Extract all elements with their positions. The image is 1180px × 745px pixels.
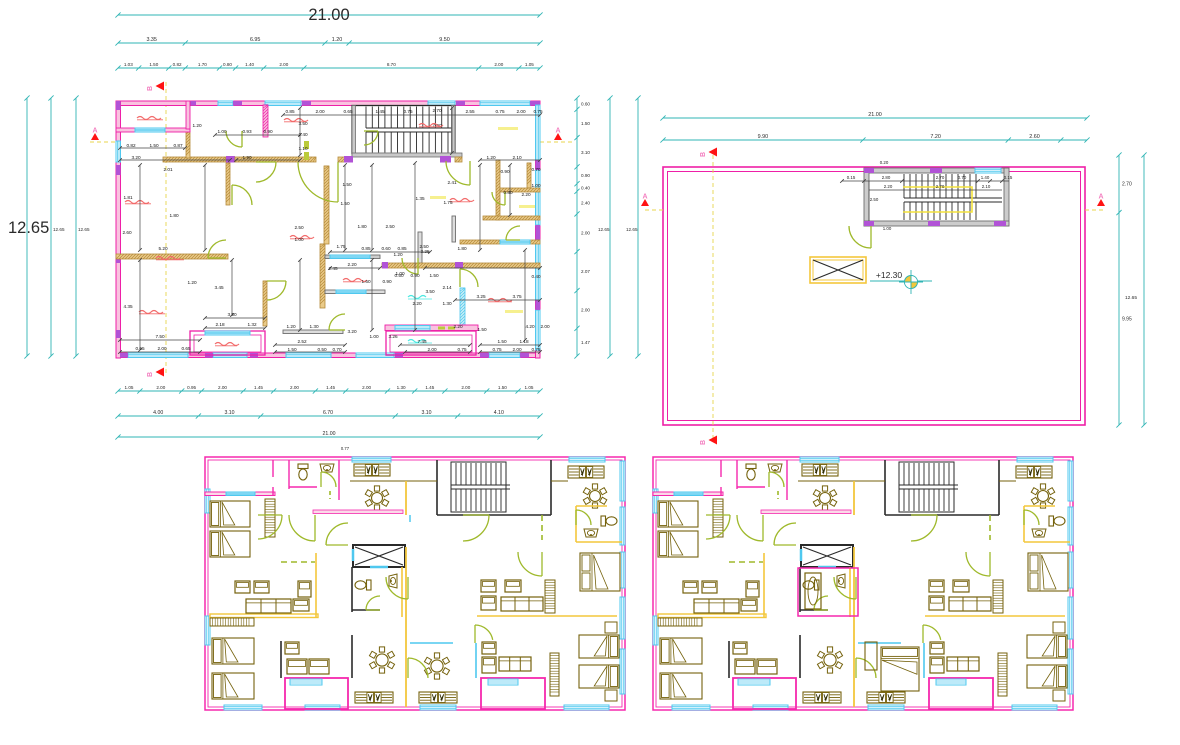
svg-text:1.80: 1.80	[357, 224, 367, 229]
dimension 21.00 top	[115, 12, 542, 17]
svg-text:1.50: 1.50	[149, 143, 159, 148]
svg-text:1.90: 1.90	[242, 155, 252, 160]
svg-text:1.75: 1.75	[443, 200, 453, 205]
armchair R1	[929, 580, 944, 592]
door arc hall low	[856, 658, 876, 678]
balcony1 outline	[733, 678, 796, 709]
balcony left outline	[190, 331, 265, 355]
door arc corridor 4	[463, 515, 489, 541]
wardrobe R	[998, 653, 1007, 696]
column right 3	[536, 300, 541, 310]
bedroom TL wall bottom	[653, 492, 723, 496]
door arc entry	[226, 131, 242, 147]
kitchen2 wall	[999, 480, 1016, 482]
svg-text:2.00: 2.00	[494, 62, 503, 67]
armchair R4	[930, 657, 944, 673]
svg-text:0.20: 0.20	[880, 160, 889, 165]
side table L	[741, 599, 757, 611]
armchair L1	[683, 581, 698, 593]
svg-text:3.26: 3.26	[388, 334, 398, 339]
roof section marker B top	[700, 148, 717, 158]
wall bedroom divider	[226, 163, 230, 205]
interior dimension lines horizontal	[118, 113, 542, 354]
room label balcony 1	[215, 343, 239, 346]
window bottom 4	[1012, 705, 1057, 710]
dining wall yellow	[761, 510, 851, 514]
svg-text:1.30: 1.30	[397, 385, 406, 390]
window right 3	[1068, 552, 1073, 588]
svg-text:0.85: 0.85	[397, 246, 407, 251]
bed R2	[579, 665, 619, 688]
svg-text:1.80: 1.80	[169, 213, 179, 218]
svg-text:12.65: 12.65	[8, 219, 49, 237]
svg-text:0.60: 0.60	[581, 102, 590, 107]
window left bedroom TL	[653, 489, 658, 513]
door arc corridor 3	[386, 577, 408, 599]
svg-text:0.90: 0.90	[382, 279, 392, 284]
bath TR wall v	[1023, 506, 1025, 542]
door arc wc2	[366, 596, 380, 610]
svg-text:1.60: 1.60	[361, 279, 371, 284]
door arc mid-right	[460, 269, 478, 287]
counter AA 1	[803, 692, 841, 703]
roof dimension right 2.70/9.95	[1116, 152, 1132, 427]
bed R1	[1027, 635, 1067, 658]
apartment outer wall	[205, 457, 625, 710]
balcony1 outline	[285, 678, 348, 709]
sofa R	[501, 597, 543, 611]
window bottom 2	[753, 705, 788, 710]
counter AA 2	[419, 692, 457, 703]
svg-text:2.00: 2.00	[540, 324, 550, 329]
toilet 2	[803, 580, 819, 590]
coffee table R	[953, 580, 969, 592]
column top 3	[302, 101, 311, 106]
svg-text:1.30: 1.30	[442, 301, 452, 306]
wc1 wall left	[736, 460, 738, 489]
living1 wall bottom	[210, 614, 318, 618]
svg-text:8.70: 8.70	[387, 62, 396, 67]
toilet TR	[601, 516, 617, 526]
svg-text:2.10: 2.10	[982, 184, 991, 189]
dining table 4	[583, 484, 607, 508]
double bed TR	[1028, 553, 1068, 591]
door arc corridor 2	[706, 515, 730, 539]
svg-text:2.00: 2.00	[157, 346, 167, 351]
svg-text:2.70: 2.70	[432, 108, 442, 113]
window interior 1	[135, 128, 165, 132]
svg-text:2.00: 2.00	[362, 385, 371, 390]
wall right-wing h3	[460, 240, 540, 244]
svg-text:21.00: 21.00	[308, 6, 349, 24]
svg-text:1.00: 1.00	[395, 271, 405, 276]
svg-text:0.65: 0.65	[181, 346, 191, 351]
window right 2	[620, 507, 625, 545]
svg-text:2.00: 2.00	[218, 385, 227, 390]
room label bath	[343, 279, 367, 282]
svg-text:0.82: 0.82	[173, 62, 182, 67]
door arc corridor 1	[737, 515, 763, 541]
svg-text:3.25: 3.25	[420, 249, 430, 254]
svg-text:7.50: 7.50	[155, 334, 165, 339]
bed TL 1	[658, 501, 698, 527]
svg-text:0.75: 0.75	[531, 347, 541, 352]
stair tread border	[899, 462, 954, 512]
stairwell wall right	[550, 460, 552, 515]
window bottom 1	[128, 353, 188, 358]
bedroom TL wall right b	[272, 487, 274, 495]
column left 1	[116, 101, 121, 110]
double bed TR	[580, 553, 620, 591]
svg-text:12.65: 12.65	[1125, 295, 1137, 301]
svg-text:3.50: 3.50	[425, 289, 435, 294]
svg-text:1.20: 1.20	[486, 155, 496, 160]
wc2 wall right	[401, 567, 403, 617]
window right 3	[620, 552, 625, 588]
svg-text:2.40: 2.40	[581, 200, 590, 205]
svg-text:B: B	[147, 372, 154, 377]
wc1 wall bottom	[737, 486, 765, 488]
door arc stairs	[364, 131, 378, 145]
svg-text:1.50: 1.50	[340, 201, 350, 206]
svg-text:2.60: 2.60	[1029, 134, 1040, 140]
column bottom 6	[520, 353, 529, 358]
armchair R3	[482, 642, 496, 654]
balcony right inner	[390, 335, 472, 352]
svg-text:2.00: 2.00	[516, 109, 526, 114]
roof dimension 21.00	[660, 112, 1089, 120]
window top 4	[480, 101, 530, 106]
section marker A right	[554, 128, 562, 141]
svg-text:0.80: 0.80	[223, 62, 232, 67]
section line A left stub	[90, 141, 116, 143]
section marker B bottom	[147, 368, 164, 378]
armchair L2	[254, 581, 269, 593]
svg-text:4.35: 4.35	[123, 304, 133, 309]
svg-text:2.18: 2.18	[215, 322, 225, 327]
svg-text:0.82: 0.82	[126, 143, 136, 148]
stair wall left	[352, 106, 356, 157]
armchair R2	[929, 596, 944, 610]
balcony1 window	[738, 679, 770, 685]
svg-text:1.50: 1.50	[287, 347, 297, 352]
roof section line B	[712, 155, 714, 440]
column bottom 3	[250, 353, 258, 358]
dining table 1	[813, 486, 837, 510]
svg-text:2.20: 2.20	[453, 324, 463, 329]
chair C1	[285, 642, 299, 654]
bed extra mid	[881, 647, 919, 691]
stairwell wall right	[998, 460, 1000, 515]
svg-text:6.95: 6.95	[250, 37, 261, 43]
door arc corridor 2	[258, 515, 282, 539]
room label bedroom 2	[139, 311, 165, 314]
bathroom pink walls	[798, 568, 858, 616]
svg-text:0.70: 0.70	[958, 175, 967, 180]
wall bedroom bottom	[116, 254, 228, 259]
elevator door cyan	[370, 566, 388, 569]
svg-text:2.20: 2.20	[347, 262, 357, 267]
door arc wc1	[769, 472, 784, 487]
svg-text:2.50: 2.50	[385, 224, 395, 229]
svg-text:1.18: 1.18	[519, 339, 529, 344]
wall right-wing vert	[496, 160, 500, 220]
door arc corridor 1	[289, 515, 315, 541]
svg-text:2.00: 2.00	[461, 385, 470, 390]
wall central vert right	[418, 232, 422, 263]
svg-text:12.65: 12.65	[53, 227, 65, 232]
room label bedroom 1	[125, 201, 151, 204]
dimension left inner	[73, 95, 78, 358]
bath TR wall h2	[1024, 541, 1070, 543]
svg-text:0.75: 0.75	[457, 347, 467, 352]
stairwell wall bottom	[885, 514, 999, 516]
level symbol	[899, 270, 923, 294]
apartment outer wall inner line	[208, 460, 622, 707]
svg-text:2.20: 2.20	[521, 192, 531, 197]
svg-text:9.90: 9.90	[758, 134, 769, 140]
section marker A left	[91, 128, 99, 141]
toilet 1	[746, 464, 756, 480]
stairwell wall bottom	[437, 514, 551, 516]
svg-text:1.20: 1.20	[187, 280, 197, 285]
svg-text:2.14: 2.14	[442, 285, 452, 290]
dining2 wall v	[351, 635, 353, 678]
svg-text:2.55: 2.55	[465, 109, 475, 114]
armchair L1	[235, 581, 250, 593]
bath wall v	[280, 641, 282, 678]
svg-text:3.75: 3.75	[512, 294, 522, 299]
sofa L	[694, 599, 739, 613]
wc2 wall bottom	[800, 609, 828, 611]
roof section marker B bottom	[700, 436, 717, 446]
section line A right stub	[540, 141, 572, 143]
svg-text:3.20: 3.20	[131, 155, 141, 160]
bed TL 2	[210, 531, 250, 557]
section marker B top	[147, 82, 164, 92]
column mid-right	[455, 262, 463, 269]
svg-text:2.20: 2.20	[412, 301, 422, 306]
door arc corridor 4	[911, 515, 937, 541]
roof stair wall bottom	[864, 221, 1009, 226]
svg-text:12.65: 12.65	[78, 227, 90, 232]
svg-text:1.30: 1.30	[309, 324, 319, 329]
svg-text:3.35: 3.35	[146, 37, 157, 43]
sofa C2	[309, 659, 329, 674]
column bottom 1	[120, 353, 128, 358]
column top 5	[530, 101, 540, 106]
room label bedroom 3	[488, 299, 512, 302]
door arc hall 3	[446, 161, 470, 185]
svg-text:0.75: 0.75	[403, 109, 413, 114]
window right 3	[536, 240, 541, 300]
svg-text:0.50: 0.50	[317, 347, 327, 352]
outer wall bottom	[116, 353, 540, 358]
column hall 2	[344, 156, 353, 163]
window central band	[330, 255, 370, 259]
svg-text:1.50: 1.50	[497, 339, 507, 344]
svg-text:2.20: 2.20	[884, 184, 893, 189]
window interior bedroom TL	[674, 492, 703, 496]
elevator walls	[801, 545, 853, 567]
roof stair wall top	[864, 168, 1009, 173]
staircase plan1	[352, 106, 455, 154]
dining table 2	[817, 647, 842, 673]
wc1 wall right	[338, 460, 340, 500]
corridor yellow wall	[853, 547, 855, 707]
sofa R2	[947, 657, 979, 671]
kitchen counter 2	[568, 466, 604, 478]
bedroom TL wall right	[272, 460, 274, 477]
svg-text:1.40: 1.40	[981, 175, 990, 180]
shelf R	[545, 580, 555, 613]
wall hall top c	[338, 157, 352, 162]
svg-text:1.32: 1.32	[247, 322, 257, 327]
svg-text:12.65: 12.65	[598, 227, 610, 232]
svg-text:3.25: 3.25	[476, 294, 486, 299]
window bottom 5	[489, 353, 520, 358]
wardrobe TL	[265, 499, 275, 537]
room label cyan 1	[408, 296, 432, 300]
svg-text:B: B	[700, 152, 707, 157]
svg-text:1.00: 1.00	[531, 183, 541, 188]
roof column 4	[994, 221, 1006, 226]
svg-text:2.70: 2.70	[936, 175, 945, 180]
svg-text:1.00: 1.00	[294, 237, 304, 242]
svg-text:2.00: 2.00	[156, 385, 165, 390]
elevator side cyan	[800, 549, 803, 561]
svg-text:0.90: 0.90	[500, 169, 510, 174]
bed BL 2	[212, 673, 254, 699]
roof staircase treads	[904, 174, 1002, 220]
window right 1	[620, 461, 625, 501]
bedroom TL wall right	[720, 460, 722, 477]
counter AA 2	[867, 692, 905, 703]
opening dash olive 2	[304, 152, 309, 160]
wall top-left room right	[186, 101, 190, 129]
window bottom 1	[672, 705, 710, 710]
door arc bedroom2	[208, 240, 226, 258]
stairwell wall left	[884, 460, 886, 515]
door arc bedroom1	[232, 185, 252, 205]
svg-text:2.52: 2.52	[297, 339, 307, 344]
shelf L	[658, 618, 702, 626]
svg-text:0.90: 0.90	[263, 129, 273, 134]
wall central top	[325, 255, 380, 259]
armchair R2	[481, 596, 496, 610]
nightstand R2	[1053, 690, 1065, 701]
nightstand R2	[605, 690, 617, 701]
elevator door cyan	[818, 566, 836, 569]
svg-text:1.45: 1.45	[326, 385, 335, 390]
staircase bottom plan	[451, 463, 510, 511]
room label corridor	[290, 236, 314, 239]
stairwell wall left	[436, 460, 438, 515]
column top 1	[187, 101, 196, 106]
living1 wall bottom	[658, 614, 766, 618]
svg-text:2.07: 2.07	[581, 269, 590, 274]
column bottom 5	[480, 353, 489, 358]
room label salon	[419, 124, 443, 127]
roof stair wall right	[1004, 168, 1009, 226]
svg-text:2.01: 2.01	[163, 167, 173, 172]
roof border outer	[663, 167, 1085, 425]
svg-text:2.40: 2.40	[298, 132, 308, 137]
wc1 wall left	[288, 460, 290, 489]
dining2 wall cyan h	[410, 642, 453, 644]
roof section line A left	[645, 209, 663, 211]
door arc bath low	[329, 314, 345, 330]
window right 4	[536, 310, 541, 350]
opening dashes h	[729, 561, 763, 563]
wc2 wall bottom	[352, 609, 380, 611]
kitchen counter 1	[354, 464, 390, 476]
door arc bedroom TR	[518, 552, 542, 576]
opening dashes v2	[329, 491, 331, 499]
opening dash olive 1	[304, 141, 309, 149]
svg-text:1.50: 1.50	[149, 62, 158, 67]
roof stair wall left	[864, 168, 869, 226]
nightstand R	[605, 622, 617, 633]
armchair R3	[930, 642, 944, 654]
sink 1	[320, 464, 334, 472]
svg-text:2.00: 2.00	[512, 347, 522, 352]
roof section marker A left	[641, 194, 649, 207]
bed BL 2	[660, 673, 702, 699]
wall top-left room bottom	[116, 128, 190, 132]
dimension right mid	[607, 95, 612, 358]
window top kitchen1	[352, 457, 391, 462]
nightstand R	[1053, 622, 1065, 633]
opening dash olive 3	[438, 327, 445, 330]
roof stair dim lines	[840, 179, 1009, 221]
window top kitchen2	[1017, 457, 1053, 462]
window right 4	[1068, 597, 1073, 639]
toilet TR	[1049, 516, 1065, 526]
svg-text:0.75: 0.75	[495, 109, 505, 114]
bath TR wall h	[576, 505, 607, 507]
wall central vert left upper	[324, 166, 329, 244]
dimension row 1 bottom	[115, 385, 542, 393]
wardrobe TL	[713, 499, 723, 537]
column top 4	[456, 101, 465, 106]
sofa R	[949, 597, 991, 611]
svg-text:3.10: 3.10	[421, 410, 431, 416]
level underline	[870, 280, 932, 282]
wc1 wall right	[786, 460, 788, 500]
wall central vert left	[320, 244, 325, 308]
roof stair window	[975, 168, 1001, 173]
corridor yellow wall top	[853, 481, 855, 515]
svg-text:2.00: 2.00	[290, 385, 299, 390]
column mid-right 2	[382, 262, 388, 269]
svg-text:12.65: 12.65	[626, 227, 638, 232]
svg-text:2.60: 2.60	[122, 230, 132, 235]
column left 3	[116, 255, 121, 263]
svg-text:1.10: 1.10	[298, 146, 308, 151]
door arc right-wing 1	[492, 192, 505, 205]
elevator side cyan	[352, 549, 355, 561]
balcony right outline	[386, 331, 476, 355]
balcony left inner	[194, 335, 261, 352]
kitchen1 wall	[350, 480, 437, 482]
column top 2	[233, 101, 242, 106]
window bottom 3	[868, 705, 904, 710]
outer wall top	[116, 101, 540, 106]
bedroom TL wall bottom	[205, 492, 275, 496]
svg-text:2.50: 2.50	[294, 225, 304, 230]
dining2 wall v	[799, 635, 801, 678]
